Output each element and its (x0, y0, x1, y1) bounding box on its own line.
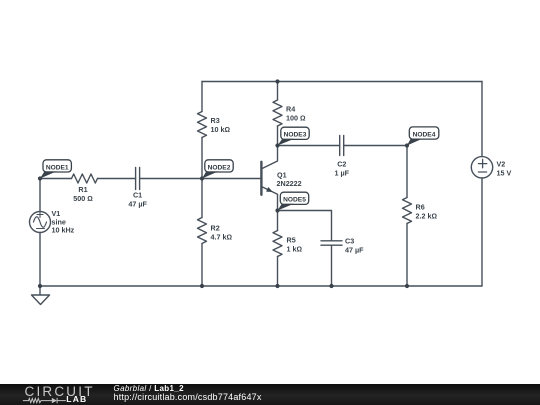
wire R4 top (277, 82, 279, 101)
svg-text:R3: R3 (211, 116, 220, 125)
svg-text:100 Ω: 100 Ω (286, 114, 306, 123)
wire NODE5 to R5 (277, 211, 279, 231)
wire NODE4 to R6 (406, 146, 408, 198)
label V2 (497, 160, 512, 178)
wire right rail top (481, 82, 483, 157)
voltage source V1 (30, 212, 51, 233)
label C3 (345, 237, 364, 255)
label C1 (128, 191, 147, 209)
capacitor C1 (136, 168, 140, 190)
wire R2 top (201, 179, 203, 218)
label V1 (52, 209, 75, 235)
svg-text:2N2222: 2N2222 (277, 179, 302, 188)
label R6 (416, 203, 438, 221)
wire left rail above V1 (39, 179, 41, 212)
svg-text:R6: R6 (416, 203, 425, 212)
footer title text (114, 385, 262, 402)
junction node NODE5 (275, 208, 279, 212)
svg-text:2.2 kΩ: 2.2 kΩ (416, 212, 438, 221)
svg-text:R2: R2 (211, 224, 220, 233)
wire R3 top (201, 82, 203, 112)
wire NODE1 to R1 (40, 178, 72, 180)
wire C1 to NODE2 to Q1 base (140, 178, 262, 180)
svg-text:47 µF: 47 µF (345, 246, 364, 255)
svg-text:500 Ω: 500 Ω (73, 194, 93, 203)
svg-text:15 V: 15 V (497, 169, 512, 178)
junction node NODE1 (38, 176, 42, 180)
junction node NODE4 (405, 143, 409, 147)
junction R6 bottom rail (405, 284, 409, 288)
voltage source V2 (471, 157, 492, 178)
CircuitLab logo (0, 384, 110, 405)
junction ground / bottom rail (38, 284, 42, 288)
label R4 (286, 105, 306, 123)
junction C3 bottom rail (329, 284, 333, 288)
wire right rail bottom (481, 178, 483, 286)
wire C2 to NODE4 (344, 145, 407, 147)
svg-text:NODE2: NODE2 (208, 164, 231, 171)
wire C3 bottom (331, 245, 333, 286)
svg-text:NODE5: NODE5 (283, 197, 306, 204)
wire R4 bottom to NODE3 (277, 126, 279, 146)
svg-text:1 µF: 1 µF (335, 169, 350, 178)
wire NODE3 to C2 (278, 145, 340, 147)
junction R5 bottom rail (275, 284, 279, 288)
wire R3 bottom to NODE2 (201, 138, 203, 179)
svg-text:47 µF: 47 µF (128, 200, 147, 209)
resistor R2 (198, 218, 207, 244)
junction node NODE2 (200, 176, 204, 180)
svg-text:NODE4: NODE4 (413, 131, 436, 138)
footer bar (0, 384, 540, 405)
label R5 (287, 236, 303, 254)
capacitor C2 (340, 136, 344, 156)
wire top rail (202, 81, 482, 83)
svg-text:R5: R5 (287, 236, 296, 245)
svg-text:R4: R4 (286, 105, 295, 114)
junction node NODE3 (275, 143, 279, 147)
wire left rail below V1 (39, 233, 41, 287)
label Q1 (277, 171, 302, 189)
wire NODE5 to C3 (278, 211, 332, 241)
wire R6 bottom (406, 224, 408, 287)
label R2 (211, 224, 233, 242)
svg-text:NODE1: NODE1 (46, 164, 69, 171)
wire R5 bottom (277, 257, 279, 287)
resistor R5 (273, 231, 282, 257)
wire R1 to C1 (98, 178, 136, 180)
svg-text:C1: C1 (133, 191, 142, 200)
label R1 (73, 185, 93, 203)
wire bottom rail (40, 285, 482, 287)
resistor R4 (273, 100, 282, 126)
node B NODE2 flag (202, 160, 233, 179)
node D NODE4 flag (407, 127, 439, 146)
svg-text:C3: C3 (345, 237, 354, 246)
resistor R3 (198, 112, 207, 138)
svg-text:R1: R1 (78, 185, 87, 194)
svg-text:C2: C2 (337, 160, 346, 169)
resistor R1 (72, 174, 98, 183)
svg-text:4.7 kΩ: 4.7 kΩ (211, 233, 233, 242)
capacitor C3 (321, 241, 342, 245)
junction R2 bottom rail (200, 284, 204, 288)
svg-text:10 kΩ: 10 kΩ (211, 125, 231, 134)
wire R2 bottom (201, 244, 203, 287)
node E NODE5 flag (278, 192, 309, 210)
svg-text:1 kΩ: 1 kΩ (287, 245, 303, 254)
svg-text:10 kHz: 10 kHz (52, 226, 75, 235)
label C2 (335, 160, 350, 178)
node C NODE3 flag (278, 127, 310, 145)
svg-text:V1: V1 (52, 209, 61, 218)
node A NODE1 flag (40, 160, 71, 179)
ground (32, 286, 50, 305)
svg-text:V2: V2 (497, 160, 506, 169)
svg-text:LAB: LAB (66, 394, 87, 404)
label R3 (211, 116, 231, 134)
transistor Q1 (261, 146, 277, 211)
junction R4 top rail (275, 79, 279, 83)
resistor R6 (403, 198, 412, 224)
svg-text:NODE3: NODE3 (284, 132, 307, 139)
